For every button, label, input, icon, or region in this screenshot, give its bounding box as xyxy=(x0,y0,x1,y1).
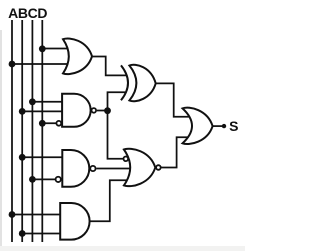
svg-text:A: A xyxy=(8,5,18,21)
svg-text:B: B xyxy=(18,5,28,21)
svg-text:C: C xyxy=(28,5,38,21)
svg-text:D: D xyxy=(37,5,47,21)
svg-text:S: S xyxy=(229,118,238,134)
